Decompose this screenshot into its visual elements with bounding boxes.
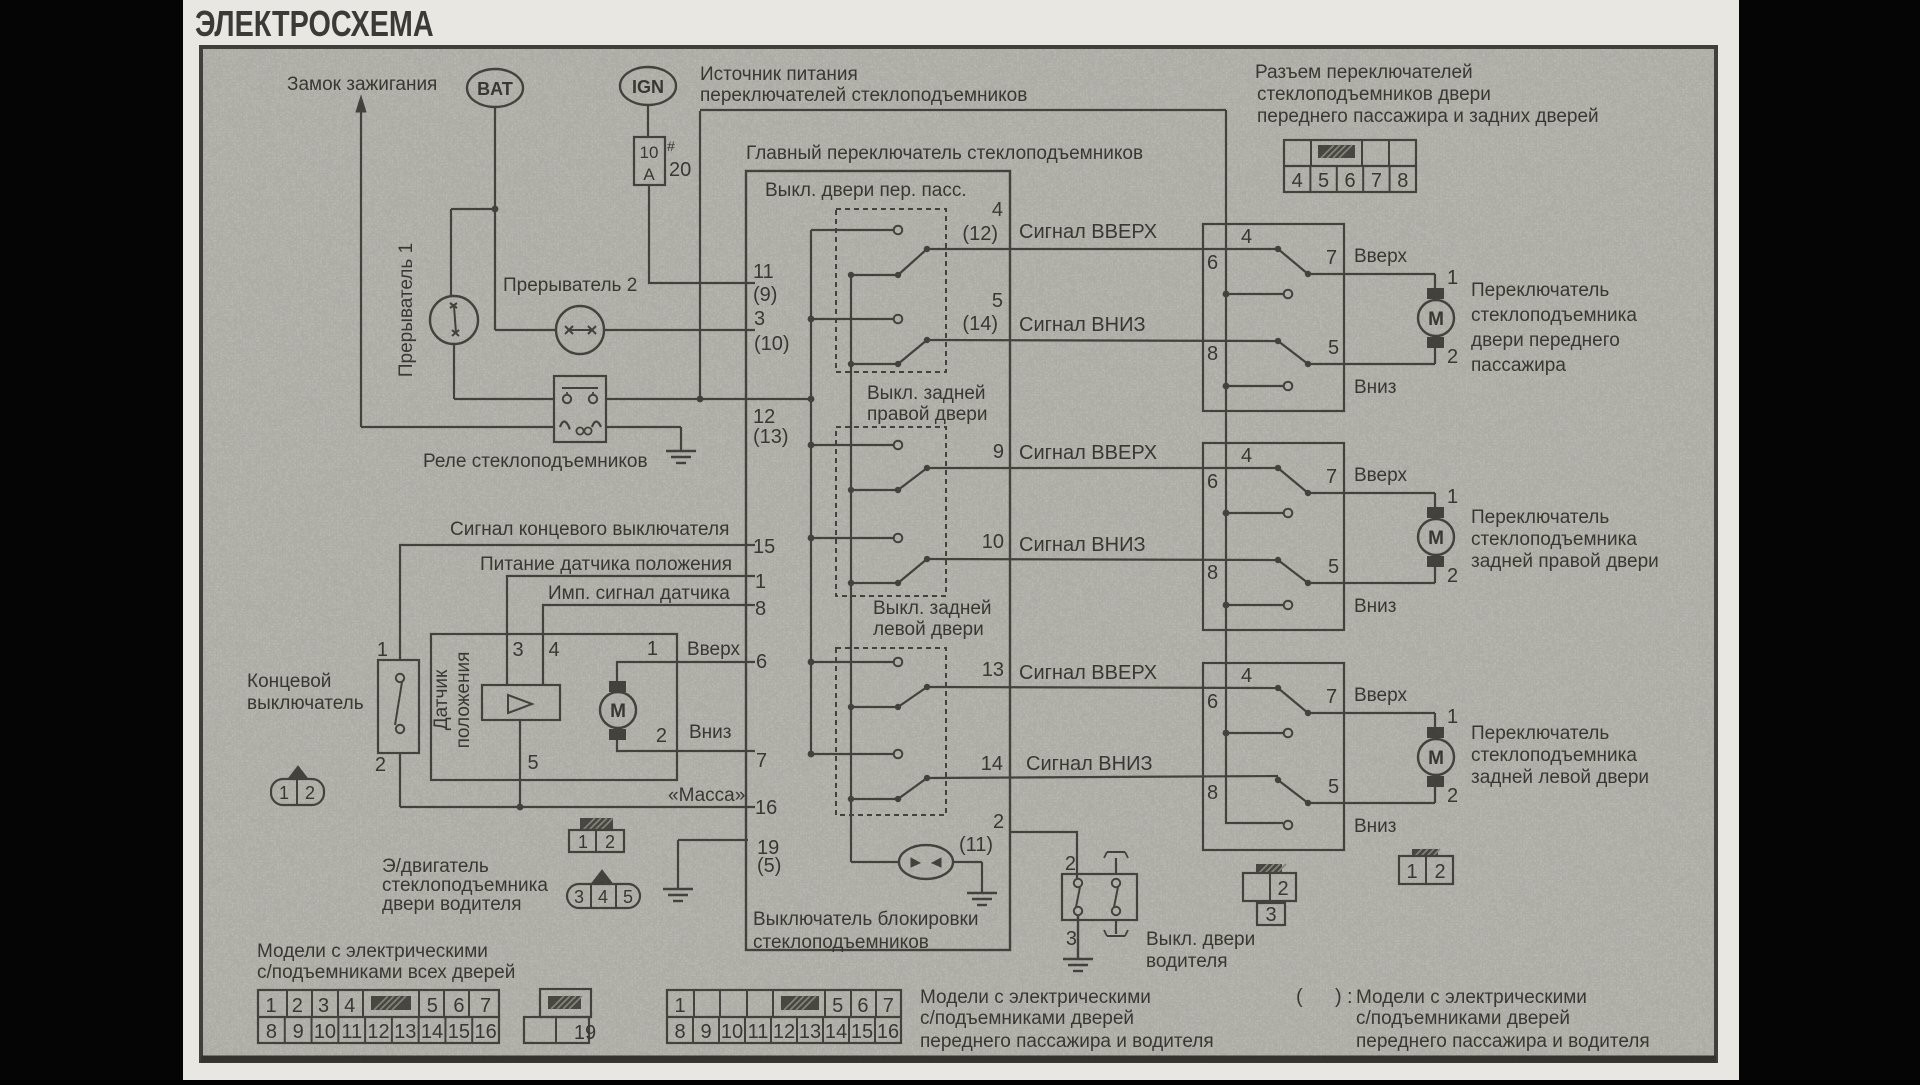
lock switch "Выключатель блокировки стеклоподъемников" (899, 845, 953, 879)
wire motor up pin 6 (617, 662, 755, 681)
motor M rear left door (1434, 713, 1436, 727)
switch contact row 1 (811, 229, 893, 231)
wire BAT to breaker 2 (495, 329, 556, 331)
wire fuse to pin 11 (649, 185, 755, 283)
wire internal supply bus (810, 230, 812, 754)
wire right connector bus (1226, 110, 1283, 823)
switch unit front passenger (dashed) (836, 209, 946, 372)
connector 3|4|5 (driver motor) (592, 870, 612, 883)
wire IGN to fuse (647, 105, 649, 137)
battery terminal BAT (467, 69, 523, 107)
wire ignition to relay coil (361, 426, 554, 428)
wire motor down pin 7 (617, 740, 755, 751)
driver door motor unit box (431, 634, 677, 780)
position sensor amplifier (482, 685, 560, 720)
switch contact row 2 (811, 318, 893, 320)
wire power feed to switch connector bus (700, 109, 1226, 111)
connector 1|2 (limit switch) (288, 766, 308, 779)
wire driver door switch to ground (1077, 915, 1079, 959)
ground (lock switch) (981, 862, 983, 893)
wire signal UP pin 13 to rear left switch (927, 687, 1278, 688)
fuse 10A (634, 137, 665, 185)
ground (pin 19) (677, 840, 679, 889)
wire signal DOWN pin 10 to rear right switch (927, 559, 1278, 560)
connector table front passenger and driver (667, 990, 901, 1043)
switch contact row 6 (811, 753, 893, 755)
connector _|2 / 3 (rear left) (1256, 864, 1282, 873)
wire relay coil to ground (606, 426, 681, 428)
window switch rear left door (1203, 663, 1344, 850)
motor M front passenger door (1434, 274, 1436, 288)
connector table all doors (258, 990, 499, 1043)
driver door switch "Выкл. двери водителя" (1062, 874, 1137, 920)
switch contact row 3 (811, 444, 893, 446)
wire breaker 2 to pin 3 (604, 329, 755, 331)
svg-text:ЭЛЕКТРОСХЕМА: ЭЛЕКТРОСХЕМА (195, 3, 434, 44)
switch contact row 4 (811, 537, 893, 539)
connector 1|2 (driver motor) (580, 818, 613, 830)
connector 1|2 (rear left motor) (1412, 849, 1438, 856)
ground (relay) (680, 427, 682, 451)
window switch front passenger door (1203, 224, 1344, 411)
switch unit rear right (dashed) (836, 427, 946, 596)
wire signal DOWN pin 14 to rear left switch (927, 776, 1278, 778)
motor M driver door (609, 681, 626, 692)
wire limit switch to ground bus (399, 753, 401, 807)
motor M rear right door (1434, 493, 1436, 507)
wire pin 2 to driver door switch (1010, 832, 1077, 879)
wire power feed junction to pin 12 (606, 398, 811, 400)
wire BAT branch to breaker 1 (451, 208, 495, 210)
ground (driver door switch) (1077, 915, 1079, 959)
relay "Реле стеклоподъемников" (554, 376, 606, 442)
switch contact row 5 (811, 661, 893, 663)
switch unit rear left (dashed) (836, 648, 946, 815)
wire breaker 1 to relay contact (453, 344, 455, 399)
connector 4-8 switches (1284, 140, 1416, 192)
wire signal UP pin 4 to passenger switch (927, 248, 1278, 250)
wire BAT vertical feed (494, 107, 496, 330)
wire lock switch to ground (953, 861, 982, 863)
ignition terminal IGN (620, 67, 676, 105)
wire signal DOWN pin 5 to passenger switch (927, 340, 1278, 341)
wire pin 19 to ground (678, 839, 748, 841)
wire ignition switch arrow (360, 112, 362, 427)
wire signal UP pin 9 to rear right switch (927, 467, 1278, 469)
wire rocker common line (850, 275, 852, 862)
connector 19 (540, 989, 591, 1017)
window switch rear right door (1203, 443, 1344, 630)
